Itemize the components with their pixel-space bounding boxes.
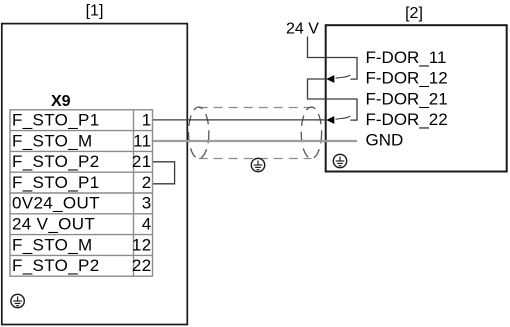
svg-text:X9: X9 (51, 93, 71, 110)
svg-text:F-DOR_22: F-DOR_22 (366, 110, 448, 129)
shield right end ellipse (301, 107, 321, 159)
relay contact F-DOR_21/F-DOR_22 fixed terminal (326, 99, 357, 120)
shield earth ground symbol (251, 158, 264, 171)
svg-text:11: 11 (133, 131, 151, 150)
svg-text:F_STO_P1: F_STO_P1 (12, 173, 100, 192)
protective earth symbol in box [1] (11, 294, 24, 307)
svg-text:F_STO_M: F_STO_M (12, 235, 93, 254)
svg-text:24 V: 24 V (286, 21, 319, 38)
cable shield cylinder (189, 107, 322, 159)
svg-text:0V24_OUT: 0V24_OUT (12, 194, 100, 213)
wire F_STO_M pin11 to GND (gray) (153, 140, 358, 142)
svg-text:F_STO_P1: F_STO_P1 (12, 111, 100, 130)
shield left end ellipse (189, 107, 209, 159)
wire F_STO_P1 pin1 to F-DOR_22 (153, 119, 327, 121)
svg-text:24 V_OUT: 24 V_OUT (12, 215, 95, 234)
svg-text:12: 12 (132, 235, 152, 254)
svg-text:F-DOR_11: F-DOR_11 (366, 48, 447, 67)
relay contact F-DOR_11/F-DOR_12 fixed terminal (326, 58, 357, 80)
svg-text:21: 21 (132, 152, 152, 171)
shield bottom line (199, 158, 312, 160)
svg-text:F-DOR_12: F-DOR_12 (366, 69, 448, 88)
svg-text:[2]: [2] (405, 5, 423, 22)
wire 24V down to F-DOR_11 (308, 37, 326, 58)
X9 row texts (12, 111, 152, 276)
svg-text:GND: GND (366, 131, 404, 150)
jumper wire pin21 to pin2 (153, 162, 175, 184)
svg-text:F-DOR_21: F-DOR_21 (366, 89, 448, 108)
protective earth symbol in box [2] (333, 154, 346, 167)
svg-text:[1]: [1] (86, 3, 104, 20)
svg-text:2: 2 (142, 173, 152, 192)
device box [2] (326, 25, 507, 171)
svg-text:3: 3 (142, 194, 152, 213)
shield top line (199, 107, 312, 109)
jumper wire F-DOR_12 to F-DOR_21 (308, 79, 326, 99)
relay contact blade F-DOR_12 (336, 75, 351, 78)
svg-text:22: 22 (132, 256, 152, 275)
device box [1] (2, 24, 188, 325)
svg-text:F_STO_M: F_STO_M (12, 131, 93, 150)
svg-text:4: 4 (142, 215, 152, 234)
svg-text:1: 1 (142, 111, 152, 130)
arrow at F-DOR_22 (326, 116, 334, 124)
connector X9 table (10, 110, 153, 276)
svg-text:F_STO_P2: F_STO_P2 (12, 152, 100, 171)
svg-text:F_STO_P2: F_STO_P2 (12, 256, 100, 275)
relay contact blade F-DOR_22 (336, 116, 351, 119)
arrow at F-DOR_12 (326, 75, 334, 83)
box [2] pin labels (366, 48, 448, 150)
